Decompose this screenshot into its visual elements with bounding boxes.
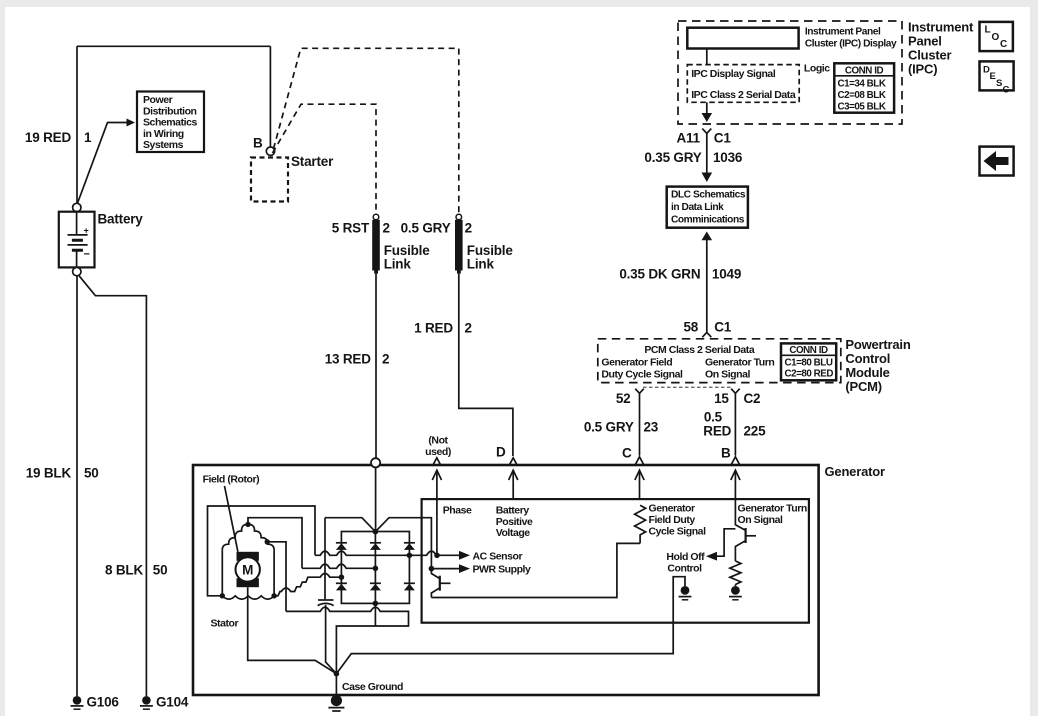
- svg-text:225: 225: [744, 424, 767, 439]
- ground bus row to case ground: [286, 607, 409, 674]
- node AC sensor: [434, 553, 440, 559]
- svg-text:C: C: [622, 446, 632, 461]
- rectifier bridge outline: [341, 532, 409, 604]
- IPC inner dashed logic box: [687, 65, 799, 103]
- node rotor tap: [265, 539, 270, 544]
- svg-text:0.35 GRY: 0.35 GRY: [644, 150, 701, 165]
- svg-text:Stator: Stator: [211, 618, 239, 630]
- svg-text:Control: Control: [845, 351, 890, 366]
- svg-text:Schematics: Schematics: [143, 117, 197, 129]
- svg-text:Starter: Starter: [291, 154, 334, 169]
- internal terminal arrow Battery Positive: [512, 470, 514, 499]
- wire stator top vertex to rectifier phase 2: [248, 518, 302, 569]
- rectifier middle column: [374, 532, 376, 604]
- svg-text:C2=08 BLK: C2=08 BLK: [838, 90, 886, 101]
- arrow from battery to power distribution box: [77, 123, 127, 205]
- svg-text:S: S: [996, 78, 1002, 89]
- wire stator bottom left loop to phase 1: [208, 506, 316, 596]
- wire 0.35 GRY 1036 to DLC: [706, 133, 708, 173]
- ground G104: [142, 696, 151, 705]
- svg-text:2: 2: [382, 352, 389, 367]
- svg-text:(PCM): (PCM): [845, 379, 882, 394]
- internal terminal arrow Phase: [436, 470, 438, 499]
- Hold Off Control arrow: [717, 529, 736, 556]
- ground at Q2: [734, 585, 736, 587]
- fusible link F1: [373, 214, 379, 220]
- svg-text:Link: Link: [384, 256, 412, 271]
- svg-text:C: C: [1000, 39, 1007, 50]
- connector 58 C1 fork: [702, 332, 711, 337]
- svg-text:C3=05 BLK: C3=05 BLK: [838, 102, 886, 113]
- wire phase 2 row: [302, 564, 375, 568]
- terminal caret C: [635, 457, 644, 465]
- svg-text:Cluster: Cluster: [908, 48, 952, 63]
- svg-text:AC Sensor: AC Sensor: [473, 550, 523, 562]
- page margin top: [0, 0, 1038, 7]
- wire rotor bottom to case ground: [248, 587, 337, 674]
- svg-text:C1: C1: [714, 131, 732, 146]
- svg-text:50: 50: [84, 466, 99, 481]
- PCM CONN ID table: [781, 343, 836, 380]
- svg-text:Field Duty: Field Duty: [649, 514, 696, 526]
- wire 0.5 GRY 23 C: [639, 393, 641, 455]
- svg-text:2: 2: [465, 321, 472, 336]
- svg-text:2: 2: [465, 221, 472, 236]
- svg-text:B: B: [721, 446, 731, 461]
- svg-text:PWR Supply: PWR Supply: [473, 564, 532, 576]
- svg-text:Module: Module: [845, 365, 889, 380]
- back arrow box: [980, 147, 1014, 176]
- wire 13 RED from F1 to generator BAT terminal: [375, 274, 377, 459]
- LOC box: [980, 22, 1013, 51]
- svg-text:Generator Field: Generator Field: [601, 357, 672, 369]
- svg-text:C2=80 RED: C2=80 RED: [785, 369, 834, 380]
- svg-text:−: −: [84, 249, 90, 261]
- node phase2 col2: [373, 566, 379, 572]
- case ground symbol: [335, 674, 337, 695]
- resistor R2 turn on: [730, 561, 741, 584]
- svg-text:Generator: Generator: [649, 503, 695, 515]
- wire BAT terminal drop: [375, 467, 377, 532]
- rotor motor M: [236, 557, 260, 581]
- diode D6: [404, 582, 415, 584]
- wire rotor tap to ground bus: [267, 542, 286, 612]
- svg-text:Phase: Phase: [443, 505, 472, 517]
- svg-text:0.5 GRY: 0.5 GRY: [401, 221, 451, 236]
- PWR Supply arrow: [431, 568, 461, 570]
- svg-text:58: 58: [683, 320, 698, 335]
- wire bird foot right to regulator PWR: [375, 518, 431, 569]
- node PWR supply: [429, 566, 435, 572]
- connector A11 C1 fork: [702, 129, 711, 134]
- terminal caret D: [509, 458, 518, 466]
- svg-text:1036: 1036: [713, 150, 743, 165]
- svg-text:23: 23: [644, 420, 659, 435]
- svg-text:in Data Link: in Data Link: [671, 202, 724, 213]
- diode D2: [370, 542, 381, 544]
- stator winding bottom: [222, 596, 274, 599]
- starter terminal circle: [266, 147, 274, 155]
- svg-text:A11: A11: [676, 131, 700, 146]
- node stator top vertex: [245, 522, 250, 527]
- svg-text:Powertrain: Powertrain: [845, 337, 910, 352]
- svg-text:15: 15: [714, 391, 729, 406]
- svg-text:DLC Schematics: DLC Schematics: [671, 190, 746, 201]
- svg-text:in Wiring: in Wiring: [143, 128, 184, 140]
- wire field drive line: [431, 543, 640, 597]
- generator BAT output terminal circle: [371, 458, 380, 467]
- svg-text:G104: G104: [156, 695, 189, 710]
- svg-text:Voltage: Voltage: [496, 527, 531, 539]
- node stator bottom left: [220, 593, 225, 598]
- svg-text:Field (Rotor): Field (Rotor): [203, 474, 260, 486]
- internal terminal arrow C: [639, 470, 641, 499]
- svg-text:E: E: [990, 71, 996, 82]
- IPC display rectangle: [687, 28, 798, 49]
- rotor brush bottom: [237, 578, 259, 587]
- svg-text:PCM Class 2 Serial Data: PCM Class 2 Serial Data: [644, 344, 754, 356]
- wire branch to 8 BLK: [78, 275, 146, 696]
- svg-text:+: +: [84, 226, 89, 236]
- transistor Q1 field driver: [431, 569, 439, 579]
- battery top terminal: [73, 203, 81, 211]
- stator winding right: [248, 524, 274, 550]
- svg-text:M: M: [242, 563, 253, 578]
- svg-text:1 RED: 1 RED: [414, 321, 453, 336]
- power distribution schematics box: [137, 92, 204, 153]
- wire phase 1 row to AC sensor node: [315, 551, 437, 555]
- svg-text:Panel: Panel: [908, 34, 942, 49]
- svg-text:O: O: [992, 32, 1000, 43]
- wire 19 RED vertical from top loop to battery: [76, 46, 78, 203]
- svg-text:C2: C2: [744, 391, 761, 406]
- svg-text:19 BLK: 19 BLK: [26, 466, 72, 481]
- svg-text:1: 1: [84, 130, 92, 145]
- svg-text:L: L: [985, 25, 991, 36]
- svg-text:0.35 DK GRN: 0.35 DK GRN: [619, 267, 700, 282]
- ground G106: [73, 696, 82, 705]
- svg-text:52: 52: [616, 391, 631, 406]
- dashed wire starter B to fusible link 1: [273, 104, 377, 214]
- node rectifier bottom: [373, 601, 379, 607]
- capacitor C1 drop: [324, 518, 326, 600]
- svg-text:Case Ground: Case Ground: [342, 681, 403, 693]
- wire IPC output with arrow: [706, 102, 708, 114]
- svg-text:CONN ID: CONN ID: [789, 345, 828, 356]
- svg-text:B: B: [253, 136, 263, 151]
- connector fork 52: [635, 389, 644, 394]
- svg-text:13 RED: 13 RED: [325, 352, 372, 367]
- svg-text:Distribution: Distribution: [143, 105, 197, 117]
- IPC CONN ID table: [834, 63, 894, 112]
- node phase3 col1: [339, 574, 345, 580]
- svg-text:On Signal: On Signal: [738, 514, 783, 526]
- svg-text:Positive: Positive: [496, 516, 533, 528]
- svg-text:C1: C1: [714, 320, 732, 335]
- node phase1 col3: [407, 553, 413, 559]
- wire display to logic box: [706, 49, 708, 65]
- PCM dashed module box: [598, 339, 841, 383]
- svg-text:Battery: Battery: [98, 212, 144, 227]
- stator winding left: [222, 524, 248, 550]
- svg-text:Battery: Battery: [496, 505, 530, 517]
- svg-text:Power: Power: [143, 94, 173, 106]
- svg-text:IPC Display Signal: IPC Display Signal: [691, 68, 776, 80]
- battery B1: [59, 212, 95, 268]
- svg-text:(IPC): (IPC): [908, 62, 937, 77]
- svg-text:C1=34 BLK: C1=34 BLK: [838, 79, 886, 90]
- svg-text:8 BLK: 8 BLK: [105, 563, 143, 578]
- generator box: [193, 465, 819, 695]
- starter dashed box: [251, 158, 288, 202]
- page margin right: [1030, 0, 1038, 716]
- svg-text:Cluster (IPC) Display: Cluster (IPC) Display: [805, 39, 897, 50]
- svg-text:Cycle Signal: Cycle Signal: [649, 526, 707, 538]
- wire 0.35 DK GRN 1049 from PCM to DLC: [702, 232, 713, 241]
- svg-text:Generator Turn: Generator Turn: [705, 357, 774, 369]
- svg-text:Generator: Generator: [825, 464, 885, 479]
- svg-text:Instrument Panel: Instrument Panel: [805, 27, 881, 38]
- IPC dashed module box: [678, 21, 902, 124]
- svg-text:Systems: Systems: [143, 139, 184, 151]
- svg-text:used): used): [425, 446, 451, 458]
- connector fork 15 C2: [731, 389, 740, 394]
- svg-text:(Not: (Not: [428, 435, 448, 447]
- svg-text:Comminications: Comminications: [671, 215, 745, 226]
- stator side wires: [222, 551, 274, 596]
- svg-text:5 RST: 5 RST: [332, 221, 370, 236]
- svg-text:Control: Control: [667, 563, 702, 575]
- svg-text:19 RED: 19 RED: [25, 130, 72, 145]
- DESC box: [980, 61, 1014, 90]
- wire hold off ground to case ground: [336, 577, 685, 674]
- svg-text:Logic: Logic: [804, 63, 830, 75]
- wire 1 RED from F2 to D terminal: [459, 274, 513, 456]
- wire bird foot left to capacitor bus: [325, 518, 375, 532]
- wire 19 BLK to G106: [76, 276, 78, 696]
- battery bottom terminal: [73, 267, 81, 275]
- svg-text:Hold Off: Hold Off: [666, 551, 705, 563]
- svg-text:Duty Cycle Signal: Duty Cycle Signal: [601, 369, 683, 381]
- svg-text:CONN ID: CONN ID: [845, 66, 884, 77]
- node stator bottom right: [271, 593, 276, 598]
- dashed wire starter B to fusible link 2: [274, 48, 459, 214]
- node rectifier top: [373, 529, 379, 535]
- wire 0.5 RED 225 B: [734, 393, 736, 455]
- wire top horizontal to starter: [77, 45, 270, 47]
- diode D1: [336, 542, 347, 544]
- svg-text:IPC Class 2 Serial Data: IPC Class 2 Serial Data: [691, 89, 796, 101]
- diode D3: [404, 542, 415, 544]
- svg-text:0.5: 0.5: [704, 410, 723, 425]
- svg-text:RED: RED: [703, 424, 731, 439]
- svg-text:Generator Turn: Generator Turn: [738, 503, 807, 515]
- terminal caret B: [731, 457, 740, 465]
- svg-text:C: C: [1003, 85, 1010, 96]
- svg-text:C1=80 BLU: C1=80 BLU: [785, 358, 833, 369]
- rotor brush top: [237, 552, 259, 561]
- svg-text:On Signal: On Signal: [705, 369, 750, 381]
- fusible link F2: [456, 214, 462, 220]
- wire phase into regulator: [436, 499, 438, 555]
- AC Sensor arrow: [437, 554, 461, 556]
- PCM connector face dashed line: [643, 386, 731, 388]
- terminal caret Not used: [432, 458, 441, 466]
- node case ground junction: [334, 671, 340, 677]
- svg-text:0.5 GRY: 0.5 GRY: [584, 420, 634, 435]
- resistor R1 field duty: [635, 505, 646, 543]
- page margin left: [0, 0, 5, 716]
- wire rectifier bottom to ground bus: [374, 603, 376, 626]
- svg-text:G106: G106: [87, 695, 120, 710]
- voltage regulator box: [422, 499, 809, 623]
- diode D5: [370, 582, 381, 584]
- svg-text:2: 2: [383, 221, 390, 236]
- diode D4: [336, 582, 347, 584]
- transistor Q2 turn on: [735, 499, 745, 530]
- ground at hold off: [681, 586, 690, 595]
- svg-text:50: 50: [153, 563, 168, 578]
- svg-text:1049: 1049: [712, 267, 741, 282]
- svg-text:Instrument: Instrument: [908, 20, 974, 35]
- wire starter drop: [269, 46, 271, 147]
- wire phase 3 row from stator bottom right: [274, 573, 339, 595]
- internal terminal arrow B: [734, 470, 736, 499]
- svg-text:Link: Link: [467, 256, 495, 271]
- svg-text:D: D: [496, 445, 506, 460]
- DLC schematics box: [667, 187, 748, 228]
